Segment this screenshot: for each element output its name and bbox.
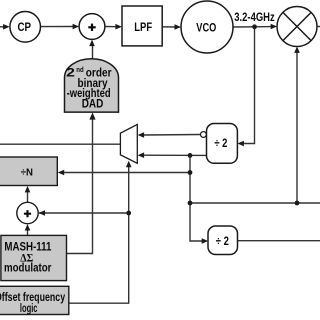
arrowhead into divider D1 right side bbox=[237, 141, 244, 147]
arrowhead into divider D2 left side bbox=[202, 238, 209, 244]
wire: LO distribution to right edge bbox=[190, 202, 320, 204]
wire: summing node to LPF bbox=[105, 26, 117, 28]
junction: VCO output tap bbox=[252, 24, 257, 29]
svg-text:3.2-4GHz: 3.2-4GHz bbox=[234, 10, 274, 24]
offset frequency logic block bbox=[0, 286, 69, 315]
wire: D1 output to mux input 2 bbox=[144, 154, 207, 156]
wire: mixer output stub to right edge bbox=[317, 26, 320, 28]
inversion bubble on D1 output bbox=[201, 132, 207, 138]
arrowhead into mux select bbox=[126, 161, 132, 168]
MASH-111 delta-sigma modulator bbox=[1, 235, 67, 280]
wire: MASH output right and up to DAD bbox=[67, 119, 93, 254]
arrowhead into LPF bbox=[115, 24, 122, 30]
svg-text:logic: logic bbox=[20, 301, 38, 315]
junction: offset/select node bbox=[126, 211, 131, 216]
wire: reference input into CP bbox=[0, 26, 5, 28]
wire: CP to summing node bbox=[41, 26, 75, 28]
svg-text:nd: nd bbox=[76, 65, 84, 74]
wire: D1 inverted output to mux input 1 bbox=[144, 134, 201, 137]
adder A2 bbox=[17, 202, 38, 223]
arrowhead into divide-by-N right side bbox=[58, 170, 64, 176]
wire: adder A2 to divide-by-N bbox=[27, 191, 29, 202]
wire: feedback into divide-by-N bbox=[64, 172, 191, 174]
wire: mux output to left edge bbox=[0, 143, 120, 145]
wire: DAD output up to summing node bbox=[92, 45, 94, 59]
svg-text:DAD: DAD bbox=[82, 97, 104, 111]
junction: D1 output node upper bbox=[188, 153, 193, 158]
arrowhead into mux input 1 bbox=[138, 132, 145, 138]
arrowhead into mixer RF port bbox=[271, 24, 278, 30]
svg-text:CP: CP bbox=[17, 20, 31, 34]
wire: VCO output to mixer bbox=[233, 26, 272, 28]
arrowhead into summing node A1 bbox=[73, 24, 80, 30]
svg-text:LPF: LPF bbox=[134, 20, 152, 34]
junction: LO bus node bbox=[188, 201, 193, 206]
divider D1 (divide by 2) bbox=[207, 124, 238, 164]
wire: VCO tap down to divider D1 bbox=[244, 27, 255, 144]
wire: D2 output to right edge bbox=[238, 240, 320, 242]
svg-text:2: 2 bbox=[66, 66, 75, 80]
divide-by-N block bbox=[0, 157, 57, 186]
arrowhead into VCO bbox=[175, 24, 182, 30]
svg-text:VCO: VCO bbox=[196, 20, 216, 34]
svg-text:÷ 2: ÷ 2 bbox=[216, 234, 229, 248]
svg-text:modulator: modulator bbox=[4, 260, 52, 274]
mux MX1 bbox=[120, 124, 137, 163]
junction: mixer LO node bbox=[295, 201, 300, 206]
junction: divide-by-N feedback node bbox=[188, 170, 193, 175]
wire: LPF to VCO bbox=[162, 26, 176, 28]
arrowhead into adder A2 right side bbox=[39, 210, 46, 216]
svg-text:÷ 2: ÷ 2 bbox=[214, 136, 227, 150]
svg-text:÷N: ÷N bbox=[21, 166, 33, 178]
wire: offset logic to mux select and adder bbox=[69, 166, 129, 303]
wire: LO up into mixer bbox=[296, 53, 298, 204]
divider D2 (divide by 2) bbox=[208, 226, 238, 255]
arrowhead into mixer LO port bbox=[294, 46, 300, 53]
charge pump CP bbox=[10, 11, 41, 42]
mixer M1 bbox=[277, 7, 317, 47]
VCO bbox=[181, 1, 233, 53]
arrowhead into adder A2 bottom bbox=[25, 224, 31, 231]
wire: vertical bus from D1 output down to divider D2 bbox=[190, 155, 203, 241]
arrowhead into CP bbox=[3, 24, 10, 30]
arrowhead into DAD bottom bbox=[89, 112, 95, 119]
arrowhead into mux input 2 bbox=[138, 152, 145, 158]
wire: offset branch into adder A2 bbox=[39, 212, 129, 214]
arrowhead into divide-by-N bottom bbox=[25, 186, 31, 193]
summing node A1 bbox=[79, 14, 105, 40]
wire: MASH output up to adder A2 bbox=[27, 230, 29, 236]
DAD: 2nd order binary-weighted DAD bbox=[65, 59, 119, 112]
arrowhead into summing node A1 bottom bbox=[89, 40, 95, 47]
low-pass filter LPF bbox=[122, 6, 162, 46]
